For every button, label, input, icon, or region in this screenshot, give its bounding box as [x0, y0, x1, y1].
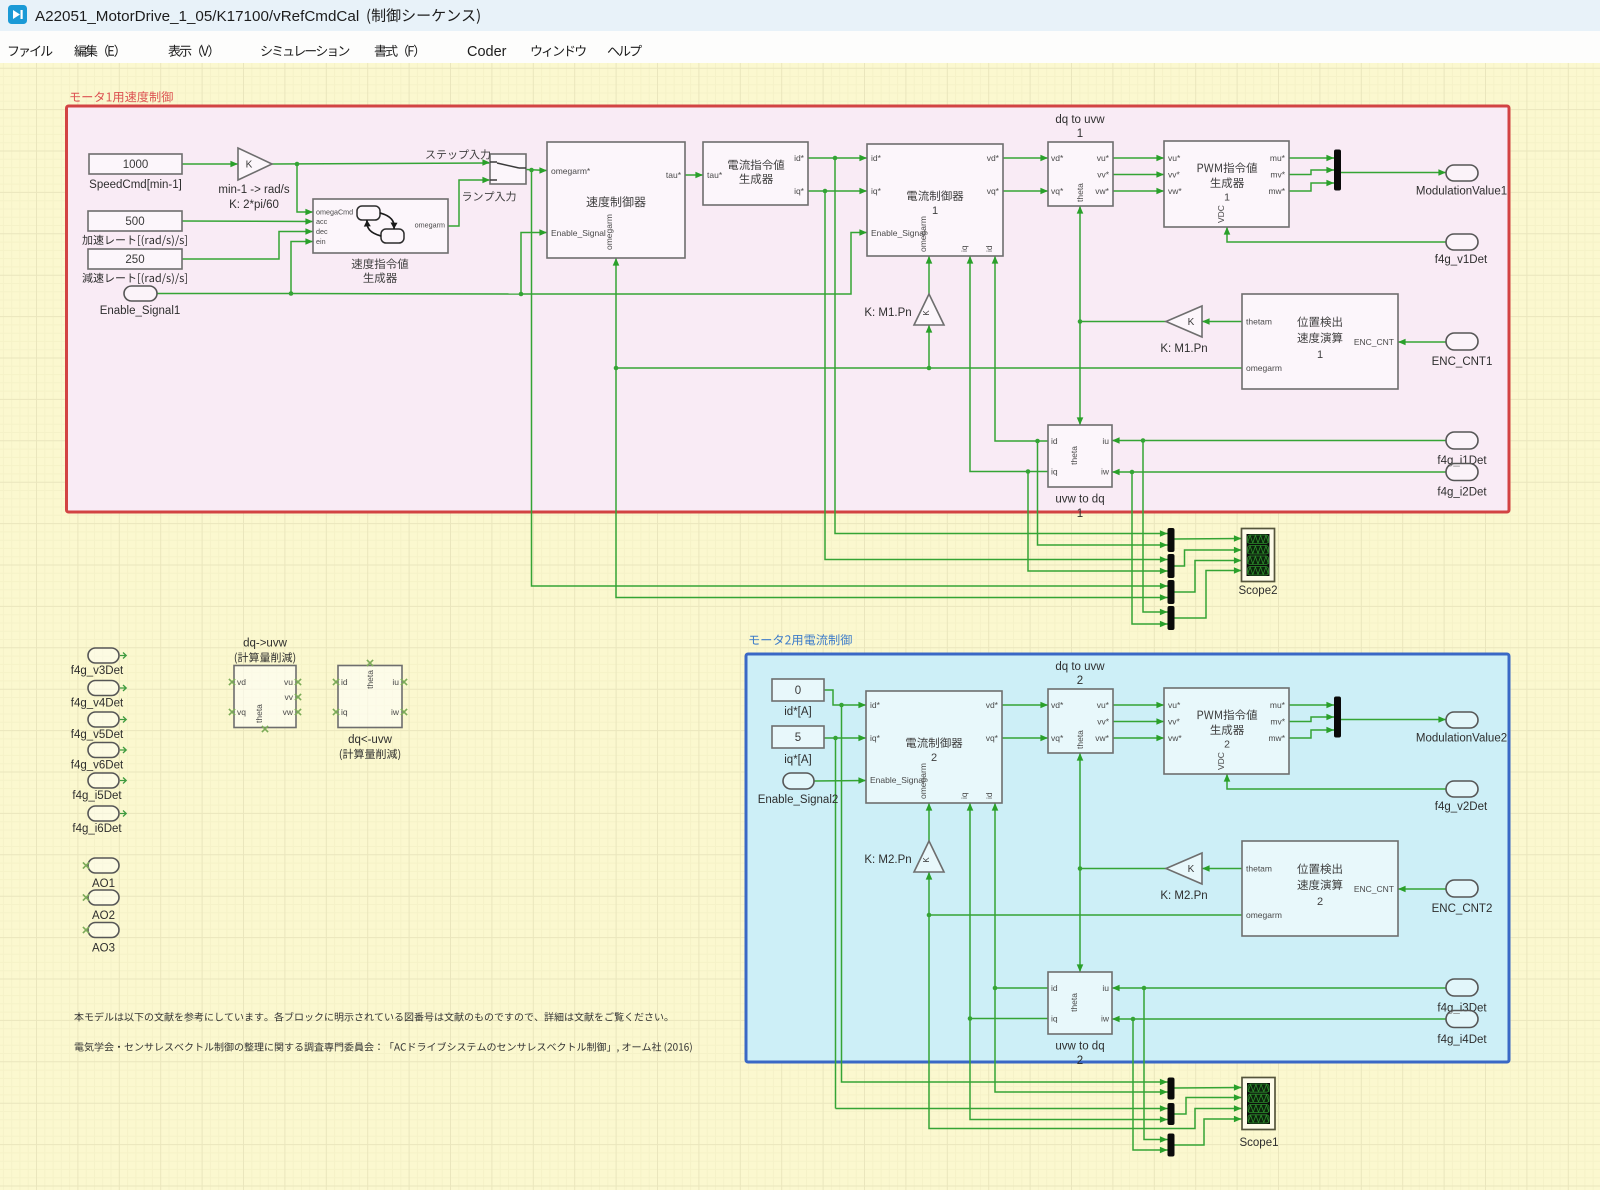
wire thetam to gain K M2.Pn	[1202, 865, 1242, 872]
svg-text:vd*: vd*	[1051, 153, 1064, 163]
label SpeedCmd[min-1]	[89, 179, 182, 191]
svg-text:AO3: AO3	[92, 943, 115, 955]
svg-text:Scope1: Scope1	[1239, 1137, 1278, 1149]
label ENC_CNT2	[1432, 903, 1493, 915]
label モータ1用速度制御	[70, 91, 172, 102]
label 電流制御器 2	[906, 737, 962, 763]
area モータ1用速度制御 (red region)	[67, 106, 1510, 512]
svg-text:K: M2.Pn: K: M2.Pn	[1160, 890, 1207, 902]
svg-text:1000: 1000	[123, 159, 149, 171]
label f4g_v6Det	[71, 760, 124, 772]
svg-text:tau*: tau*	[666, 170, 682, 180]
wire mu* 1	[1289, 155, 1334, 162]
label f4g_i6Det	[72, 823, 122, 835]
svg-text:2: 2	[1317, 896, 1323, 908]
mux scope1-1	[1168, 1078, 1175, 1100]
svg-text:vq: vq	[237, 707, 246, 717]
outport AO2	[83, 890, 119, 905]
annotation line 2	[75, 1042, 692, 1053]
svg-text:theta: theta	[365, 670, 375, 689]
wire 5 to iq*	[824, 735, 866, 1109]
mux scope2-2	[1168, 554, 1175, 578]
svg-text:iw: iw	[391, 707, 400, 717]
inport Enable_Signal2	[783, 773, 814, 789]
label ENC_CNT1	[1432, 356, 1493, 368]
mux scope1-2	[1168, 1103, 1175, 1125]
mux scope1-3	[1168, 1134, 1175, 1157]
svg-text:min-1 -> rad/s: min-1 -> rad/s	[218, 184, 290, 196]
svg-text:Enable_Signal2: Enable_Signal2	[758, 794, 839, 806]
svg-text:uvw to dq: uvw to dq	[1055, 494, 1104, 506]
label 計算量削減 (dq->uvw)	[235, 652, 295, 663]
wire f4g_v1Det to VDC 1	[1224, 227, 1446, 242]
svg-text:id: id	[1051, 436, 1058, 446]
svg-text:dq to uvw: dq to uvw	[1055, 661, 1105, 673]
svg-text:VDC: VDC	[1216, 752, 1226, 770]
wire vv* 1	[1113, 171, 1164, 178]
svg-text:vd*: vd*	[986, 700, 999, 710]
subsystem uvw to dq 1	[1048, 425, 1112, 487]
label 位置検出 1	[1297, 316, 1342, 360]
wire vu* 1	[1113, 155, 1164, 162]
label Scope2	[1238, 585, 1277, 597]
label K: M2.Pn (up)	[864, 854, 911, 866]
svg-text:vd: vd	[237, 677, 246, 687]
label ステップ入力	[426, 149, 490, 159]
svg-text:iq*: iq*	[871, 186, 882, 196]
svg-text:vv*: vv*	[1097, 170, 1110, 180]
inport f4g_v1Det	[1446, 234, 1478, 250]
svg-text:K: K	[1188, 317, 1195, 328]
outport ModulationValue1	[1446, 165, 1478, 181]
wire mux3 to Scope2	[1175, 557, 1242, 592]
svg-text:A22051_MotorDrive_1_05/K17100/: A22051_MotorDrive_1_05/K17100/vRefCmdCal	[35, 8, 359, 25]
outport AO3	[83, 923, 119, 938]
outport ModulationValue2	[1446, 712, 1478, 728]
subsystem 速度制御器	[547, 142, 685, 258]
svg-text:id*: id*	[871, 153, 882, 163]
menu items	[9, 44, 642, 60]
wire theta net 1	[1077, 206, 1166, 425]
svg-text:f4g_v4Det: f4g_v4Det	[71, 698, 124, 710]
svg-text:Enable_Signal1: Enable_Signal1	[100, 305, 181, 317]
svg-text:vd*: vd*	[987, 153, 1000, 163]
svg-text:vq*: vq*	[1051, 733, 1064, 743]
svg-text:K: K	[1188, 864, 1195, 875]
svg-text:iu: iu	[1102, 436, 1109, 446]
label Enable_Signal1	[100, 305, 181, 317]
gain K M1.Pn (up)	[914, 294, 944, 325]
label uvw to dq 1	[1055, 494, 1104, 521]
label PWM指令値 1	[1198, 162, 1258, 203]
wire mv* 2	[1289, 714, 1334, 722]
mux scope2-3	[1168, 580, 1175, 604]
label K: M1.Pn (up)	[864, 307, 911, 319]
svg-text:theta: theta	[1075, 183, 1085, 202]
label AO1	[92, 878, 115, 890]
wire mux2 to Scope2	[1175, 547, 1242, 566]
subsystem 電流制御器 1	[867, 144, 1003, 256]
svg-text:vw*: vw*	[1095, 733, 1109, 743]
subsystem dq to uvw 1	[1048, 142, 1113, 206]
svg-text:omegarm: omegarm	[918, 216, 928, 252]
svg-text:vw*: vw*	[1168, 733, 1182, 743]
svg-text:mw*: mw*	[1268, 186, 1285, 196]
label 電流制御器 1	[907, 190, 963, 216]
wire mu* 2	[1289, 702, 1334, 709]
wire mux to ModulationValue1	[1341, 169, 1446, 176]
svg-text:vv*: vv*	[1168, 170, 1181, 180]
wire uvw to dq iq output 2	[967, 803, 1168, 1123]
svg-text:ein: ein	[316, 237, 326, 246]
subsystem 電流制御器 2	[866, 691, 1002, 803]
svg-text:vu*: vu*	[1168, 153, 1181, 163]
svg-text:Scope2: Scope2	[1238, 585, 1277, 597]
svg-text:mu*: mu*	[1270, 700, 1286, 710]
wire theta net 2	[1077, 753, 1166, 972]
wire vw* 1	[1113, 188, 1164, 195]
svg-text:thetam: thetam	[1246, 317, 1272, 327]
wire SpeedCmd to gain	[182, 161, 238, 168]
label Scope1	[1239, 1137, 1278, 1149]
svg-text:iq: iq	[341, 707, 348, 717]
wire vq* 1	[1003, 188, 1048, 195]
block dq<-uvw	[333, 660, 407, 728]
inport f4g_v4Det	[88, 681, 126, 696]
inport f4g_v2Det	[1446, 781, 1478, 797]
svg-text:vw*: vw*	[1168, 186, 1182, 196]
svg-text:iq: iq	[1051, 467, 1058, 477]
mux ModulationValue1	[1334, 150, 1341, 191]
subsystem PWM指令値生成器 2	[1164, 688, 1289, 774]
svg-text:iq*: iq*	[794, 186, 805, 196]
svg-text:iq*: iq*	[870, 733, 881, 743]
label Enable_Signal2	[758, 794, 839, 806]
label dq->uvw	[243, 638, 287, 650]
mux ModulationValue2	[1334, 697, 1341, 738]
inport f4g_i5Det	[88, 773, 126, 788]
gain min-1 to rad/s	[238, 148, 272, 180]
subsystem 電流指令値生成器	[703, 142, 808, 205]
svg-text:mw*: mw*	[1268, 733, 1285, 743]
svg-text:vq*: vq*	[1051, 186, 1064, 196]
label PWM指令値 2	[1198, 709, 1258, 750]
svg-text:tau*: tau*	[707, 170, 723, 180]
wire f4g_i4Det to iw 2	[1112, 1016, 1446, 1154]
svg-text:id: id	[984, 792, 994, 799]
inport f4g_v5Det	[88, 712, 126, 727]
inport f4g_i4Det	[1446, 1011, 1478, 1028]
svg-text:ENC_CNT: ENC_CNT	[1354, 884, 1394, 894]
svg-text:acc: acc	[316, 217, 328, 226]
label ModulationValue2	[1416, 733, 1507, 745]
label f4g_i4Det	[1437, 1034, 1487, 1046]
wire mux4 to Scope2	[1175, 567, 1242, 618]
label AO3	[92, 943, 115, 955]
svg-text:AO2: AO2	[92, 910, 115, 922]
svg-text:ENC_CNT2: ENC_CNT2	[1432, 903, 1493, 915]
annotation line 1	[74, 1012, 667, 1021]
svg-text:mv*: mv*	[1270, 717, 1285, 727]
wire vq* 2	[1002, 735, 1048, 742]
svg-text:ModulationValue1: ModulationValue1	[1416, 186, 1507, 198]
wire tau*	[685, 172, 703, 179]
svg-text:f4g_v6Det: f4g_v6Det	[71, 760, 124, 772]
constant SpeedCmd 1000	[89, 154, 182, 174]
wire mux2 to Scope1	[1175, 1094, 1242, 1114]
svg-text:f4g_i5Det: f4g_i5Det	[72, 790, 122, 802]
subsystem uvw to dq 2	[1048, 972, 1112, 1034]
svg-text:2: 2	[1224, 739, 1230, 751]
label ModulationValue1	[1416, 186, 1507, 198]
svg-text:id: id	[341, 677, 348, 687]
svg-text:uvw to dq: uvw to dq	[1055, 1041, 1104, 1053]
wire vw* 2	[1113, 735, 1164, 742]
svg-text:vq*: vq*	[987, 186, 1000, 196]
mux scope2-4	[1168, 606, 1175, 630]
label K: M2.Pn (left)	[1160, 890, 1207, 902]
label f4g_i5Det	[72, 790, 122, 802]
svg-text:f4g_i2Det: f4g_i2Det	[1437, 487, 1487, 499]
label 速度制御器	[586, 196, 645, 207]
app icon	[8, 5, 27, 24]
svg-text:Enable_Signal: Enable_Signal	[870, 775, 925, 785]
svg-text:SpeedCmd[min-1]: SpeedCmd[min-1]	[89, 179, 182, 191]
svg-text:iq: iq	[959, 792, 969, 799]
wire mux1 to Scope2	[1175, 535, 1242, 542]
inport ENC_CNT2	[1446, 880, 1478, 897]
svg-text:f4g_v2Det: f4g_v2Det	[1435, 801, 1488, 813]
svg-text:id: id	[1051, 983, 1058, 993]
svg-text:K: M1.Pn: K: M1.Pn	[1160, 343, 1207, 355]
svg-text:vw*: vw*	[1095, 186, 1109, 196]
inport f4g_i6Det	[88, 806, 126, 821]
label uvw to dq 2	[1055, 1041, 1104, 1068]
wire f4g_v2Det to VDC 2	[1224, 774, 1446, 789]
wire uvw to dq id output 2	[992, 803, 1168, 1095]
svg-text:theta: theta	[254, 704, 264, 723]
wire id* command	[808, 155, 1168, 537]
wire 250 to dec	[182, 228, 313, 259]
svg-text:K: K	[922, 310, 931, 316]
wire f4g_i2Det to iw 1	[1112, 469, 1446, 628]
svg-text:iu: iu	[392, 677, 399, 687]
inport ENC_CNT1	[1446, 333, 1478, 350]
wire vd* 2	[1002, 702, 1048, 709]
wire vd* 1	[1003, 155, 1048, 162]
wire f4g_i1Det to iu 1	[1112, 437, 1446, 615]
wire omegarm net 1	[613, 256, 1242, 601]
svg-text:dq->uvw: dq->uvw	[243, 638, 287, 650]
svg-text:vv*: vv*	[1097, 717, 1110, 727]
svg-text:1: 1	[1317, 349, 1323, 361]
svg-text:500: 500	[125, 216, 144, 228]
wire iq* command	[808, 188, 1168, 563]
svg-text:dq to uvw: dq to uvw	[1055, 114, 1105, 126]
wire vv* 2	[1113, 718, 1164, 725]
window title text	[35, 8, 480, 25]
label f4g_v5Det	[71, 729, 124, 741]
label 計算量削減 (dq<-uvw)	[340, 749, 400, 760]
wire ENC_CNT1 input	[1398, 339, 1446, 346]
scope Scope2	[1242, 529, 1275, 582]
svg-text:vq*: vq*	[986, 733, 999, 743]
wire f4g_i3Det to iu 2	[1112, 985, 1446, 1143]
wire 0 to id*	[824, 690, 1168, 1085]
label 生成器 (chart)	[363, 272, 397, 283]
svg-text:K: K	[246, 160, 253, 171]
wire vu* 2	[1113, 702, 1164, 709]
constant id* 0	[772, 679, 824, 701]
svg-text:vd*: vd*	[1051, 700, 1064, 710]
wire mv* 1	[1289, 167, 1334, 175]
svg-text:K: M2.Pn: K: M2.Pn	[864, 854, 911, 866]
label ランプ入力	[463, 191, 515, 201]
switch block	[490, 154, 526, 184]
svg-text:vv*: vv*	[1168, 717, 1181, 727]
inport f4g_v3Det	[88, 648, 126, 663]
svg-text:omegarm: omegarm	[918, 763, 928, 799]
wire chart omegarm to switch (ramp input)	[448, 177, 490, 226]
label f4g_v1Det	[1435, 254, 1488, 266]
mux scope2-1	[1168, 528, 1175, 552]
gain K M2.Pn (left)	[1166, 853, 1202, 884]
svg-text:omegarm: omegarm	[1246, 363, 1282, 373]
wire mw* 2	[1289, 727, 1334, 738]
inport f4g_i3Det	[1446, 979, 1478, 996]
label 電流指令値	[728, 159, 784, 170]
svg-text:vu: vu	[284, 677, 293, 687]
svg-text:Enable_Signal: Enable_Signal	[551, 228, 606, 238]
wire to scope1 mux2 in1	[836, 1105, 1168, 1112]
svg-text:vu*: vu*	[1168, 700, 1181, 710]
svg-text:theta: theta	[1075, 730, 1085, 749]
svg-text:K: M1.Pn: K: M1.Pn	[864, 307, 911, 319]
wire Enable_Signal1 distribution	[157, 229, 867, 296]
wire mux to ModulationValue2	[1341, 716, 1446, 723]
svg-text:ModulationValue2: ModulationValue2	[1416, 733, 1507, 745]
svg-text:mu*: mu*	[1270, 153, 1286, 163]
svg-text:2: 2	[1077, 675, 1083, 687]
wire uvw to dq id output 1	[992, 256, 1168, 548]
inport f4g_i1Det	[1446, 432, 1478, 449]
label K: M1.Pn (left)	[1160, 343, 1207, 355]
svg-text:dq<-uvw: dq<-uvw	[348, 734, 392, 746]
label f4g_i3Det	[1437, 1003, 1487, 1015]
label 生成器 (iref)	[739, 173, 773, 184]
wire mux1 to Scope1	[1175, 1084, 1242, 1091]
svg-text:mv*: mv*	[1270, 170, 1285, 180]
svg-text:2: 2	[931, 752, 937, 764]
label iq*[A]	[784, 754, 812, 766]
label f4g_v4Det	[71, 698, 124, 710]
constant 減速レート 250	[88, 249, 182, 269]
wire thetam to gain K M1.Pn	[1202, 318, 1242, 325]
area モータ2用電流制御 (blue region)	[746, 654, 1509, 1062]
svg-text:id*: id*	[870, 700, 881, 710]
svg-text:1: 1	[1077, 508, 1083, 520]
label 加速レート	[82, 235, 187, 246]
svg-text:id*: id*	[794, 153, 805, 163]
label dq to uvw 1	[1055, 114, 1105, 140]
svg-text:thetam: thetam	[1246, 864, 1272, 874]
svg-text:omegarm*: omegarm*	[551, 166, 591, 176]
wire ENC_CNT2 input	[1398, 886, 1446, 893]
svg-text:f4g_i4Det: f4g_i4Det	[1437, 1034, 1487, 1046]
svg-text:vu*: vu*	[1097, 153, 1110, 163]
svg-text:omegarm: omegarm	[1246, 910, 1282, 920]
svg-text:1: 1	[932, 205, 938, 217]
svg-text:f4g_i6Det: f4g_i6Det	[72, 823, 122, 835]
svg-text:1: 1	[1077, 128, 1083, 140]
svg-text:f4g_v1Det: f4g_v1Det	[1435, 254, 1488, 266]
svg-text:VDC: VDC	[1216, 205, 1226, 223]
label f4g_v3Det	[71, 665, 124, 677]
block dq->uvw	[229, 666, 301, 733]
label dq to uvw 2	[1055, 661, 1105, 687]
svg-text:iw: iw	[1101, 1014, 1110, 1024]
inport f4g_v6Det	[88, 743, 126, 758]
label id*[A]	[784, 706, 812, 718]
svg-text:K: K	[922, 857, 931, 863]
svg-text:AO1: AO1	[92, 878, 115, 890]
chart 速度指令値生成器	[313, 199, 448, 253]
svg-text:iq: iq	[959, 245, 969, 252]
wire Enable_Signal2	[814, 777, 866, 784]
svg-text:Coder: Coder	[467, 44, 507, 60]
svg-text:f4g_v3Det: f4g_v3Det	[71, 665, 124, 677]
subsystem 位置検出速度演算 1	[1242, 294, 1398, 389]
svg-text:iq: iq	[1051, 1014, 1058, 1024]
wire 500 to acc	[182, 218, 313, 225]
svg-text:ENC_CNT: ENC_CNT	[1354, 337, 1394, 347]
wire omegarm net 2	[926, 803, 1242, 1129]
window title bar	[0, 0, 1600, 31]
svg-text:K: 2*pi/60: K: 2*pi/60	[229, 199, 279, 211]
svg-text:vv: vv	[285, 692, 294, 702]
label 速度指令値	[352, 258, 409, 269]
wire uvw to dq iq output 1	[967, 256, 1168, 574]
subsystem PWM指令値生成器 1	[1164, 141, 1289, 227]
svg-text:dec: dec	[316, 227, 328, 236]
scope Scope1	[1242, 1078, 1275, 1130]
label f4g_i1Det	[1437, 455, 1487, 467]
svg-text:1: 1	[1224, 192, 1230, 204]
inport Enable_Signal1	[124, 286, 157, 301]
subsystem 位置検出速度演算 2	[1242, 841, 1398, 936]
svg-text:ENC_CNT1: ENC_CNT1	[1432, 356, 1493, 368]
label f4g_i2Det	[1437, 487, 1487, 499]
label AO2	[92, 910, 115, 922]
wire mux3 to Scope1	[1175, 1116, 1242, 1145]
constant 加速レート 500	[88, 211, 182, 231]
menu bar	[0, 31, 1600, 63]
svg-text:vw: vw	[283, 707, 294, 717]
label 減速レート	[82, 273, 186, 284]
svg-text:iq*[A]: iq*[A]	[784, 754, 812, 766]
svg-text:omegarm: omegarm	[604, 214, 614, 250]
gain K M2.Pn (up)	[914, 841, 944, 872]
svg-text:id: id	[984, 245, 994, 252]
svg-text:theta: theta	[1069, 446, 1079, 465]
svg-text:iu: iu	[1102, 983, 1109, 993]
subsystem dq to uvw 2	[1048, 689, 1113, 753]
wire gain to switch (step input)	[272, 159, 490, 215]
wire switch to 速度制御器 omegarm*	[526, 167, 1168, 589]
label 位置検出 2	[1297, 863, 1342, 907]
label モータ2用電流制御	[749, 634, 851, 645]
svg-text:omegarm: omegarm	[415, 221, 445, 230]
